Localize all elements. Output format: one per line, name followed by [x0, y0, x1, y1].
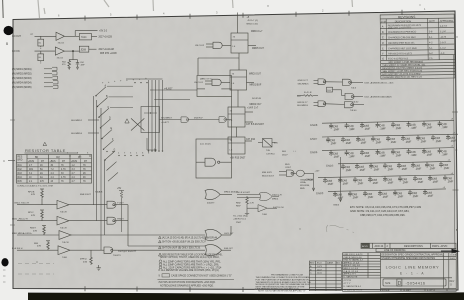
amp labels [12, 191, 234, 264]
svg-text:BD: BD [35, 157, 39, 159]
svg-text:CM: CM [56, 157, 60, 159]
capacitor C85 .1MF [408, 190, 419, 199]
svg-text:ECO: ECO [317, 263, 322, 265]
resistor R62 [303, 95, 313, 97]
svg-text:E - 1 - A: E - 1 - A [400, 272, 425, 276]
svg-text:T40A/B: T40A/B [95, 191, 103, 194]
svg-text:LINE MEMORY: LINE MEMORY [405, 264, 440, 269]
svg-text:GN ON: GN ON [12, 51, 20, 53]
svg-text:CHANGED R44 PER ECO: CHANGED R44 PER ECO [388, 31, 417, 34]
gate U12 74LS2 [345, 93, 354, 99]
wire U16 output [293, 172, 296, 174]
svg-text:DD: DD [78, 157, 82, 159]
svg-text:(W) MRD4 (MRD4): (W) MRD4 (MRD4) [12, 82, 32, 84]
svg-text:74LO4: 74LO4 [58, 43, 65, 45]
svg-text:CHANGED C38-C44 REV: CHANGED C38-C44 REV [388, 36, 416, 39]
capacitor C53 .1MF [431, 134, 442, 143]
svg-text:8. ALL RESISTOR VALUES ARE: 8. ALL RESISTOR VALUES ARE IN OHMS (±5%,… [159, 269, 219, 272]
REV ECO small table [309, 261, 341, 291]
amp A3 [17, 234, 59, 236]
note 5 [159, 260, 162, 263]
capacitor C41 .1MF [375, 122, 386, 131]
svg-text:7K: 7K [61, 181, 64, 183]
svg-text:GN3 DLY7: GN3 DLY7 [298, 80, 309, 82]
svg-text:74LO8: 74LO8 [62, 242, 69, 244]
capacitor C56 .1MF [344, 150, 355, 159]
note 3 [159, 246, 162, 249]
wire R62 leads [297, 95, 303, 97]
signal name list rows [12, 67, 58, 89]
svg-text:GN OUT: GN OUT [12, 36, 22, 38]
svg-text:ODD7: ODD7 [285, 167, 292, 169]
LOGIC LINE MEMORY title [382, 264, 455, 292]
resistor 4.7K vertical [246, 196, 249, 205]
svg-text:D: D [398, 281, 402, 287]
note 2 [159, 240, 162, 243]
svg-text:G: G [450, 284, 452, 287]
svg-text:DD2 +A/DN5/8C5/AC5/AD5: DD2 +A/DN5/8C5/AC5/AD5 [365, 95, 393, 98]
svg-text:DWPL. APVD: DWPL. APVD [432, 245, 447, 248]
svg-text:J.L.M: J.L.M [440, 30, 446, 33]
title area bands [381, 255, 457, 257]
svg-text:DESIGNATION SPEC GRADE CONT: DESIGNATION SPEC GRADE CONTRACTUAL APPRO… [382, 254, 445, 257]
svg-text:NO: NO [337, 263, 341, 265]
capacitor C52 .1MF [416, 135, 427, 144]
notes list (bottom centre-left) [158, 236, 235, 287]
svg-text:DASH: DASH [327, 262, 333, 265]
small box with X [263, 139, 273, 148]
svg-text:CODE: CODE [450, 255, 457, 257]
R above A1 [41, 189, 44, 199]
svg-text:C88,C98,C77,C94,C78,C80,C85,C9: C88,C98,C77,C94,C78,C80,C85,C96. [360, 213, 406, 217]
svg-text:2302 Q-H: 2302 Q-H [272, 195, 282, 197]
svg-text:D. VAN NOTE 4-1: D. VAN NOTE 4-1 [344, 285, 362, 288]
amp 7406 mid [258, 205, 267, 212]
staircase wiper dots [95, 95, 105, 161]
capacitor C55 .1MF [329, 150, 340, 159]
svg-text:1107: 1107 [317, 269, 322, 271]
X mark in crystal box [263, 139, 273, 148]
dashed box A [197, 76, 232, 97]
svg-text:SEL/MRD2: SEL/MRD2 [71, 120, 83, 122]
title block: revision strip A [361, 243, 460, 253]
svg-text:REVISED R70 4-1073: REVISED R70 4-1073 [388, 52, 412, 55]
title block texts [344, 254, 457, 292]
svg-text:ENG H. VANHU 4-7: ENG H. VANHU 4-7 [344, 259, 364, 262]
svg-text:74LS: 74LS [351, 88, 357, 90]
svg-text:SHT ON (A) R (B) ONLY 50: SHT ON (A) R (B) ONLY 505 LTC B. [162, 246, 201, 249]
svg-text:TY44Y: TY44Y [117, 202, 124, 204]
svg-text:47B: 47B [31, 194, 35, 196]
separator line [158, 279, 235, 281]
capacitor C54 .1MF [446, 134, 457, 143]
ground under resistor [245, 214, 249, 217]
ground R64 [68, 68, 71, 70]
svg-text:45 R+7 (-1): 45 R+7 (-1) [248, 20, 259, 22]
svg-text:R41: R41 [18, 165, 23, 167]
capacitor C65 .1MF [369, 163, 380, 172]
wire input T2 [35, 50, 56, 52]
svg-text:GN4A,TR5A,: GN4A,TR5A, [300, 178, 313, 181]
left vertical rails [94, 96, 105, 250]
resistor R64 [68, 60, 71, 68]
revision strip B with arrow [376, 248, 456, 251]
svg-text:5441: 5441 [450, 258, 456, 260]
R under A4 out [90, 256, 93, 265]
svg-text:UNLESS OTHERWISE SPECIFIED DI: UNLESS OTHERWISE SPECIFIED DIM IN INCHES [382, 258, 436, 260]
svg-text:7406: 7406 [262, 214, 268, 216]
svg-text:+14 R C+7: +14 R C+7 [247, 108, 259, 110]
svg-text:+BUS: +BUS [28, 161, 35, 163]
svg-text:T606T9: T606T9 [113, 255, 121, 257]
svg-text:(A2,14,15 DO,41,45) (R14,15,: (A2,14,15 DO,41,45) (R14,15,16,17) 415,B… [162, 236, 218, 239]
vertical wire bundle [126, 79, 163, 150]
svg-text:B: B [382, 30, 384, 34]
svg-text:SHT ON +05 (B,10)B.F (M,10: SHT ON +05 (B,10)B.F (M,10) 505 LTC F. [162, 241, 207, 244]
svg-text:1073: 1073 [317, 266, 323, 268]
svg-text:MRD4 C150: MRD4 C150 [247, 24, 259, 26]
svg-text:7K: 7K [83, 181, 86, 183]
svg-text:6447 E-2H: 6447 E-2H [273, 207, 284, 209]
svg-text:GND5: GND5 [333, 205, 340, 207]
svg-text:4.7K: 4.7K [61, 177, 66, 179]
svg-text:CONN= LOC3 A05 2.7 G,.G74,: CONN= LOC3 A05 2.7 G,.G74, G7M [17, 184, 53, 187]
delay element DLY [327, 87, 333, 92]
wire DLY output [333, 89, 342, 91]
svg-text:47A: 47A [83, 260, 87, 263]
note 6 [159, 263, 162, 266]
capacitor C42 .1MF [391, 122, 402, 131]
FF box B3 [228, 107, 245, 127]
wire collector vertical [127, 205, 129, 246]
capacitor C44 .1MF [422, 121, 433, 130]
bubble U12 [351, 96, 353, 98]
svg-text:W1LR5M,: W1LR5M, [300, 185, 310, 187]
capacitor C77 .1MF [413, 175, 424, 184]
svg-text:DLY: DLY [328, 90, 333, 92]
svg-text:APPR D. LT 4-8: APPR D. LT 4-8 [344, 261, 360, 264]
svg-text:GND6: GND6 [310, 150, 318, 154]
svg-text:+BUS: +BUS [71, 161, 78, 163]
bubble U15 [291, 172, 293, 174]
bus box [141, 107, 160, 133]
chain vertical wire [237, 13, 239, 34]
svg-text:BRD: BRD [18, 160, 23, 162]
black pointer arrow [441, 250, 452, 252]
capacitor C59 .1MF [391, 149, 402, 158]
svg-text:R+2 LR: R+2 LR [304, 92, 312, 94]
svg-text:REVISIONS: REVISIONS [398, 15, 415, 19]
capacitor C75 .1MF [383, 176, 394, 185]
svg-text:E: E [382, 46, 384, 50]
capacitor C74 .1MF [368, 176, 379, 185]
capacitor C46 .1MF [326, 137, 337, 146]
level connect stubs with dots [107, 86, 133, 107]
svg-text:(W) MRD2 (MRD2): (W) MRD2 (MRD2) [12, 73, 32, 75]
svg-text:1-4-73: 1-4-73 [440, 25, 448, 28]
svg-text:4R1: 4R1 [29, 169, 34, 171]
svg-text:47B: 47B [33, 230, 37, 232]
capacitor C70 .1MF [439, 161, 450, 170]
capacitor C72 .1MF [338, 177, 349, 186]
bubble U10 [323, 81, 325, 83]
svg-text:4.7K: 4.7K [61, 169, 66, 171]
capacitor C62 .1MF [437, 148, 448, 157]
svg-text:C37 R10: C37 R10 [246, 139, 256, 141]
arrowed wire [147, 138, 157, 151]
capacitor C43 .1MF [406, 121, 417, 130]
capacitor C51 .1MF [401, 135, 412, 144]
staircase letters [105, 84, 116, 151]
capacitor C49 .1MF [371, 136, 382, 145]
svg-text:4M4 003Y: 4M4 003Y [262, 172, 273, 174]
svg-text:NOTED/LEAVE DRAWINGS APPLIED: NOTED/LEAVE DRAWINGS APPLIED +1N3 RQ0. [160, 284, 214, 287]
svg-text:GN3 DLY7: GN3 DLY7 [297, 102, 308, 104]
svg-text:DD8 +A/DN5/8C3/DC5 + 4D5: DD8 +A/DN5/8C3/DC5 + 4D5 [365, 81, 395, 84]
svg-text:TN LR H 2447: TN LR H 2447 [236, 192, 251, 194]
right border double line + letters [453, 55, 455, 250]
note 4 [159, 253, 162, 256]
box U2 [79, 34, 91, 40]
ground C84 [76, 67, 79, 69]
svg-text:APVD: APVD [362, 245, 368, 248]
svg-text:74S: 74S [266, 150, 270, 152]
svg-text:RM2: RM2 [236, 202, 241, 204]
gate U13 (DLY row 2 input) [318, 101, 326, 107]
gate U11 74LS (DLY row 1 output) [342, 79, 351, 85]
svg-text:2K: 2K [83, 173, 86, 175]
svg-text:GND NOTE: C9,C11,C17,C26,C44,: GND NOTE: C9,C11,C17,C26,C44,C47,C67,C84… [350, 209, 410, 213]
input gate B1 [213, 42, 222, 48]
svg-text:SEL/MRD4: SEL/MRD4 [71, 133, 83, 135]
svg-text:R45: R45 [18, 181, 23, 183]
wire input T1 [35, 35, 57, 37]
svg-text:(W) MRD3 (MRD3): (W) MRD3 (MRD3) [12, 78, 32, 80]
signature column rows [343, 255, 381, 257]
wire from bus box right [160, 119, 182, 121]
note 1 [159, 236, 162, 239]
SEL MRD stubs [88, 120, 99, 133]
svg-text:LR5A,: LR5A, [300, 181, 306, 184]
svg-text:C37 R10: C37 R10 [266, 153, 275, 155]
gate Ga on A1 out [107, 201, 116, 208]
svg-text:-5054416: -5054416 [406, 281, 426, 285]
wire T1 out [65, 35, 76, 37]
capacitor C47 .1MF [341, 136, 352, 145]
capacitor C61 .1MF [422, 148, 433, 157]
cap row right-end hooks [443, 119, 456, 190]
capacitor C58 .1MF [375, 149, 386, 158]
svg-text:74LO4: 74LO4 [57, 57, 64, 59]
svg-text:REVISED PER ECO 441: REVISED PER ECO 441 [388, 42, 415, 45]
svg-text:(W) MRD5 (MRD5): (W) MRD5 (MRD5) [12, 87, 32, 89]
+5V pullup right of rails [119, 191, 124, 233]
svg-text:DESCRIPTION: DESCRIPTION [395, 20, 412, 23]
svg-text:.1MF: .1MF [80, 64, 85, 66]
X cross [131, 118, 144, 130]
title block main box [343, 253, 457, 292]
svg-text:1K: 1K [40, 165, 43, 167]
test box under input T1 [38, 39, 44, 46]
svg-text:4 T T Y: 4 T T Y [344, 283, 352, 285]
svg-text:GND7: GND7 [310, 137, 318, 141]
capacitor C71 .1MF [323, 177, 334, 186]
cap bus row 1 [310, 120, 454, 132]
capacitor C67 .1MF [397, 162, 408, 171]
zone ticks on top border [85, 10, 402, 21]
svg-text:0DD7: 0DD7 [282, 154, 288, 156]
svg-text:REV: REV [310, 263, 315, 265]
capacitor C64 .1MF [355, 163, 366, 172]
svg-text:APPR T. WQ 4-8: APPR T. WQ 4-8 [344, 264, 361, 267]
capacitor C63 .1MF [341, 164, 352, 173]
svg-text:-1473: -1473 [440, 36, 447, 39]
buffer U1 [56, 32, 65, 40]
note 7 [159, 266, 162, 269]
svg-text:1-6-3: 1-6-3 [440, 41, 446, 44]
svg-text:1141: 1141 [317, 273, 322, 275]
svg-text:47B: 47B [37, 246, 41, 248]
svg-text:+4L/007: +4L/007 [164, 89, 173, 91]
line from B1 area to left [198, 57, 239, 59]
gate U10 (DLY row 1 input) [318, 79, 326, 85]
capacitor C73 .1MF [353, 177, 364, 186]
svg-text:SCALE: SCALE [382, 289, 390, 292]
svg-text:D: D [382, 41, 384, 45]
svg-text:RM5: RM5 [300, 188, 305, 190]
svg-text:DATE: DATE [429, 20, 436, 23]
svg-text:(W) MRD1 (MRD1): (W) MRD1 (MRD1) [12, 69, 32, 71]
capacitor C84 .1MF [393, 190, 404, 199]
svg-text:8A: 8A [40, 168, 43, 171]
svg-text:LM CLK1: LM CLK1 [194, 82, 204, 84]
cap bus row 2 [310, 134, 458, 146]
svg-text:DRN J.W.Q. 4-6-73: DRN J.W.Q. 4-6-73 [344, 254, 364, 256]
svg-text:PROGRAMMING CONN FOLGE: PROGRAMMING CONN FOLGE [271, 274, 304, 277]
svg-text:+BUS: +BUS [50, 161, 57, 163]
capacitor C50 .1MF [386, 135, 397, 144]
amp A4 [17, 249, 58, 251]
svg-text:+5N R10 2N07: +5N R10 2N07 [230, 158, 246, 160]
svg-text:RPL2: RPL2 [28, 212, 34, 214]
svg-text:TR44Y: TR44Y [117, 218, 124, 220]
svg-text:RPL/B: RPL/B [28, 191, 35, 193]
svg-text:7K: 7K [83, 165, 86, 167]
svg-text:LINE OF DRAWING: LINE OF DRAWING [384, 249, 406, 252]
bubble U14 [351, 104, 353, 106]
box U4 [79, 46, 89, 52]
svg-text:2N07: 2N07 [236, 222, 242, 224]
hole punch bottom [1, 258, 8, 266]
svg-text:A: A [382, 24, 384, 28]
svg-text:2A: 2A [40, 172, 43, 175]
OR gate 2302 [260, 192, 273, 200]
svg-text:74LS2: 74LS2 [352, 101, 359, 103]
svg-text:74LS0: 74LS0 [350, 110, 357, 112]
svg-text:74LO8: 74LO8 [60, 228, 67, 230]
margin streaks and specks [2, 0, 5, 18]
svg-text:SEL/MRD5: SEL/MRD5 [297, 105, 309, 107]
zone ticks on bottom border [85, 286, 243, 292]
svg-text:SHEET: SHEET [403, 289, 412, 292]
cap bus row 4 [326, 161, 451, 173]
svg-text:GND5: GND5 [326, 163, 334, 167]
svg-text:APPR 4 TTY: APPR 4 TTY [344, 273, 357, 276]
svg-text:4 P P R: 4 P P R [344, 280, 352, 282]
svg-text:4K: 4K [83, 177, 86, 179]
svg-text:47B: 47B [31, 215, 35, 217]
svg-text:LLC: LLC [297, 96, 301, 98]
svg-text:SEL/MRD5: SEL/MRD5 [298, 83, 310, 85]
input gate B2 [212, 79, 221, 85]
buffer U16 [296, 170, 304, 176]
svg-text:2027+1A12B: 2027+1A12B [99, 36, 113, 39]
svg-text:CHANGED NET LIST PER: CHANGED NET LIST PER [388, 47, 417, 50]
svg-text:CHANGED PER ECO 441 REV G 24: CHANGED PER ECO 441 REV G 24 [382, 76, 422, 79]
selector staircase switch bank [96, 87, 118, 181]
bottom black scan band [28, 292, 464, 300]
svg-text:R43: R43 [18, 173, 23, 175]
svg-text:B: B [456, 228, 458, 232]
capacitor C82 .1MF [363, 190, 374, 199]
svg-text:TX DATE APPROX: TX DATE APPROX [344, 288, 363, 291]
svg-text:(LLL 2102): (LLL 2102) [200, 144, 211, 146]
svg-text:MFG J. LO 4-9: MFG J. LO 4-9 [344, 268, 359, 270]
revision table (top right) [380, 14, 455, 79]
svg-text:R84/7: R84/7 [30, 228, 37, 230]
svg-text:CHK R. MILLS 4-6: CHK R. MILLS 4-6 [344, 257, 363, 259]
gate U14 74LS0 [345, 102, 354, 108]
capacitor C39 .1MF [344, 123, 355, 132]
svg-text:TLL 2102 1K0: TLL 2102 1K0 [233, 216, 247, 218]
svg-text:MRD2 OU7: MRD2 OU7 [250, 104, 263, 106]
svg-text:SEE SHT 1 FOR REV: SEE SHT 1 FOR REV [388, 26, 412, 29]
capacitor C83 .1MF [378, 190, 389, 199]
svg-text:1 OF 2: 1 OF 2 [427, 288, 435, 292]
svg-text:L3B1 MRDA+LRD5+: L3B1 MRDA+LRD5+ [12, 232, 33, 235]
FF box B2 [230, 70, 247, 90]
svg-text:NOTE: 505 NOTATION REVISIONS A: NOTE: 505 NOTATION REVISIONS APPLIED "G" [258, 289, 306, 292]
svg-text:RUD: RUD [285, 164, 290, 166]
capacitor C86 .1MF [423, 189, 434, 198]
amp A2 [17, 220, 57, 222]
svg-text:200TQ0Y 604-0TT: 200TQ0Y 604-0TT [118, 251, 137, 253]
svg-text:LOGIC: LOGIC [386, 264, 402, 269]
capacitor C80 .1MF [333, 191, 344, 200]
svg-text:B+E ILB H: B+E ILB H [12, 248, 23, 250]
faint dash rows bottom-left [18, 264, 54, 275]
ground under R [97, 268, 101, 271]
svg-text:MRD4: MRD4 [272, 199, 279, 201]
capacitor C60 .1MF [406, 148, 417, 157]
svg-text:G: G [114, 150, 116, 152]
capacitor C45 .1MF [437, 121, 448, 130]
dot-digit rows bottom of bundle [67, 152, 150, 154]
bubble U11 [349, 81, 351, 83]
svg-text:CASE SPACE CONNECTION NOT: CASE SPACE CONNECTION NOT USED (2N6603-1… [171, 275, 232, 278]
gate under box B [205, 189, 220, 199]
svg-text:R44: R44 [18, 177, 23, 179]
svg-text:1-4-2: 1-4-2 [440, 47, 446, 50]
capacitor bank rows [306, 120, 458, 217]
capacitor C38 .1MF [329, 123, 340, 132]
capacitor C78 .1MF [428, 175, 439, 184]
amp A1 [17, 204, 57, 206]
capacitor C57 .1MF [360, 149, 371, 158]
resistor table [17, 142, 92, 187]
svg-text:4004TT: 4004TT [207, 203, 215, 205]
wire T2 out [64, 50, 79, 52]
